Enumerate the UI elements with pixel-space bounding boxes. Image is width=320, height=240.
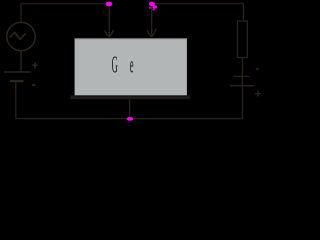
battery B2 <box>230 77 254 86</box>
node (base junction dot) <box>127 117 133 121</box>
wire <box>155 4 243 21</box>
wire <box>21 4 106 23</box>
wire <box>242 58 244 77</box>
label - <box>32 84 35 86</box>
wire <box>129 99 131 119</box>
label - <box>256 68 259 70</box>
node (emitter junction dot) <box>106 2 113 6</box>
emitter point contact arrow <box>105 6 114 37</box>
node (collector junction dot) <box>149 2 157 11</box>
wire <box>242 86 244 119</box>
ac source <box>7 22 35 50</box>
collector point contact arrow <box>147 7 156 37</box>
wire <box>20 51 22 72</box>
svg-text:e: e <box>130 51 134 78</box>
wire <box>16 82 243 118</box>
resistor R (load) <box>238 21 248 58</box>
germanium block Ge <box>75 38 187 96</box>
svg-text:G: G <box>112 51 118 78</box>
base electrode dark edge <box>75 95 187 96</box>
base electrode bar <box>71 96 191 100</box>
battery B1 <box>4 72 31 81</box>
label + <box>255 91 261 97</box>
label + <box>32 62 38 68</box>
